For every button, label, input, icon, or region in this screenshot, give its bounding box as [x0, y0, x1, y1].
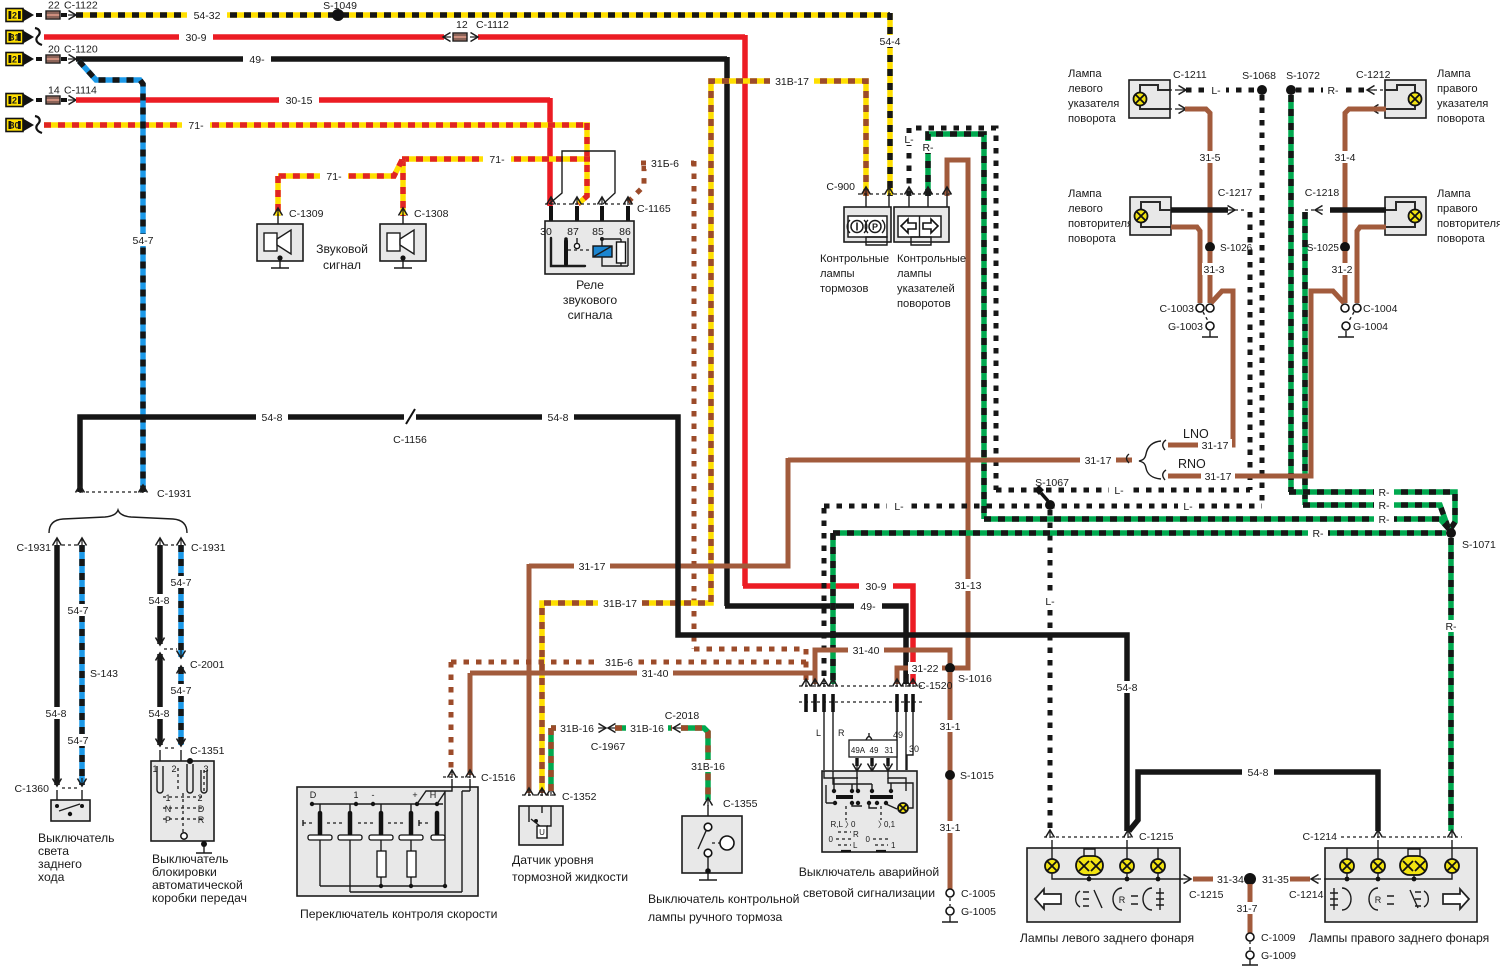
connector C-1360 — [53, 778, 62, 786]
ground G-1005 — [946, 907, 954, 915]
svg-text:блокировки: блокировки — [152, 865, 217, 879]
svg-text:Переключатель контроля скорост: Переключатель контроля скорости — [300, 907, 497, 921]
svg-text:31-3: 31-3 — [1203, 264, 1224, 276]
wire R- green horizontal from hazard — [833, 530, 1446, 536]
svg-text:G-1004: G-1004 — [1353, 321, 1388, 333]
svg-text:31-34: 31-34 — [1217, 874, 1244, 886]
relay internals: contact arm — [551, 238, 585, 266]
svg-text:L: L — [853, 841, 858, 850]
horn connector C-1308 — [399, 208, 408, 216]
connector C-1214 dashed line — [1341, 836, 1462, 838]
connector C-1351 — [156, 738, 165, 746]
wire 31B-6 down to hazard pin — [804, 662, 809, 684]
svg-text:14: 14 — [48, 85, 60, 97]
svg-text:тормозов: тормозов — [820, 283, 868, 295]
svg-text:LNO: LNO — [1183, 427, 1209, 441]
left turn indicator icon — [901, 219, 916, 233]
svg-text:54-7: 54-7 — [67, 605, 88, 617]
svg-text:85: 85 — [592, 226, 604, 238]
reverse light switch — [57, 790, 82, 800]
svg-text:G-1005: G-1005 — [961, 906, 996, 918]
splice S-1071 — [1446, 528, 1456, 538]
instrument cluster: brake warning lamps box — [844, 207, 891, 242]
svg-text:сигнала: сигнала — [568, 308, 613, 322]
svg-text:54-7: 54-7 — [67, 735, 88, 747]
speed control contact bars — [318, 813, 323, 834]
svg-text:31B-16: 31B-16 — [630, 723, 664, 735]
svg-text:C-1215: C-1215 — [1189, 889, 1224, 901]
svg-text:C-1212: C-1212 — [1356, 69, 1391, 81]
svg-text:Звуковой: Звуковой — [316, 242, 368, 256]
wire 30-9 horizontal to hazard switch — [743, 586, 913, 684]
svg-text:54-8: 54-8 — [148, 708, 169, 720]
hazard flasher unit 49A 49 31 — [849, 740, 897, 757]
svg-text:поворота: поворота — [1437, 113, 1486, 125]
svg-text:1: 1 — [891, 841, 896, 850]
connector C-1516 — [443, 776, 476, 778]
wire 31-1 to ground — [948, 672, 953, 889]
hazard switch position legend — [846, 806, 881, 820]
svg-text:30: 30 — [540, 226, 552, 238]
splice S-1026 — [1205, 242, 1215, 252]
svg-text:C-1218: C-1218 — [1305, 187, 1340, 199]
power feed tag 2 y=15 — [6, 9, 23, 22]
wire brown from right repeater to C-1004 — [1357, 227, 1386, 303]
svg-text:54-7: 54-7 — [132, 235, 153, 247]
wire 49- black — [76, 56, 727, 62]
wire 31-35 — [1290, 877, 1310, 882]
splice S-1025 — [1340, 242, 1350, 252]
svg-text:2: 2 — [197, 793, 202, 803]
svg-text:D: D — [198, 804, 205, 814]
svg-text:правого: правого — [1437, 203, 1478, 215]
svg-text:31-22: 31-22 — [912, 663, 939, 675]
power feed tag 31 y=37 — [6, 31, 23, 44]
svg-text:31-13: 31-13 — [955, 580, 982, 592]
svg-text:Контрольные: Контрольные — [897, 253, 966, 265]
instrument cluster: turn indicator lamps box — [894, 207, 949, 242]
svg-text:Лампы правого заднего фонаря: Лампы правого заднего фонаря — [1309, 931, 1489, 945]
svg-text:P: P — [872, 222, 878, 232]
hazard warning switch box — [822, 771, 917, 852]
svg-text:S-1072: S-1072 — [1286, 70, 1320, 82]
horn 1 (sound signal) — [257, 224, 303, 261]
right rear lamp box — [1325, 848, 1477, 922]
svg-text:54-7: 54-7 — [170, 685, 191, 697]
wire R- green/black from C-900 — [928, 134, 984, 519]
svg-text:+: + — [412, 790, 417, 800]
svg-text:R-: R- — [1378, 487, 1390, 499]
splice S-1015 — [945, 770, 955, 780]
lamp C-1218 right repeater — [1385, 197, 1426, 235]
wire L- to left tail lamp — [1048, 510, 1053, 831]
svg-text:86: 86 — [619, 226, 631, 238]
wire R- green vertical from S-1072 — [1288, 95, 1294, 492]
svg-text:C-1308: C-1308 — [414, 208, 449, 220]
svg-text:31-5: 31-5 — [1199, 152, 1220, 164]
splice pigtail diamond to S-1067 — [1034, 485, 1044, 495]
svg-text:D: D — [310, 790, 317, 800]
svg-text:C-1122: C-1122 — [64, 0, 98, 12]
wire 71- yellow/red from feed — [44, 122, 590, 128]
connector C-1215 dashed line — [1044, 836, 1133, 838]
svg-text:коробки передач: коробки передач — [152, 891, 247, 905]
svg-text:54-8: 54-8 — [45, 708, 66, 720]
svg-text:31-17: 31-17 — [579, 561, 606, 573]
left tail lamp icons — [1035, 889, 1061, 909]
svg-text:20: 20 — [48, 44, 60, 56]
wire L- lower horizontal — [824, 504, 1262, 509]
svg-text:C-900: C-900 — [826, 181, 855, 193]
speed control contact platforms — [308, 835, 332, 840]
svg-text:31-40: 31-40 — [642, 668, 669, 680]
park brake switch box — [707, 805, 709, 822]
svg-text:G-1009: G-1009 — [1261, 950, 1296, 962]
brown dashed wire 31B-6 from relay pin 86 — [628, 166, 644, 202]
wire R- dashed to C-1212 — [1296, 88, 1368, 93]
svg-text:C-1211: C-1211 — [1173, 69, 1207, 81]
pigtail squiggle — [35, 28, 42, 45]
ground below horn 1 — [271, 260, 289, 268]
svg-text:левого: левого — [1068, 203, 1103, 215]
svg-text:C-1352: C-1352 — [562, 791, 597, 803]
svg-text:сигнал: сигнал — [323, 258, 361, 272]
svg-text:2: 2 — [12, 11, 17, 21]
wire 31-34 — [1183, 875, 1191, 884]
fuse 20 / connector C-1120 — [36, 57, 45, 61]
svg-text:54-7: 54-7 — [170, 577, 191, 589]
wire R- green from C-1218 elbow — [1303, 505, 1449, 530]
svg-text:L-: L- — [1045, 596, 1055, 608]
horn relay housing outline — [549, 151, 615, 204]
svg-text:Реле: Реле — [576, 278, 604, 292]
svg-text:указателя: указателя — [1437, 98, 1488, 110]
svg-text:C-1165: C-1165 — [637, 203, 671, 215]
svg-text:31-7: 31-7 — [1236, 903, 1257, 915]
connector C-1355 — [704, 798, 713, 806]
svg-text:R: R — [1375, 895, 1382, 905]
svg-text:54-8: 54-8 — [1247, 767, 1268, 779]
svg-text:31B-16: 31B-16 — [691, 761, 725, 773]
wire 54-8 black main — [80, 417, 404, 492]
svg-text:0,1: 0,1 — [884, 820, 896, 829]
wire 71- horn feed lower — [400, 159, 406, 216]
svg-text:30: 30 — [9, 121, 19, 131]
lamp C-1212 right turn signal — [1385, 80, 1426, 118]
svg-text:заднего: заднего — [38, 857, 82, 871]
svg-text:Лампа: Лампа — [1068, 188, 1102, 200]
svg-text:L: L — [816, 728, 821, 738]
wire 54-7 blue/black from C-1120 down — [79, 61, 143, 492]
svg-text:12: 12 — [456, 19, 468, 31]
svg-text:C-1215: C-1215 — [1139, 831, 1174, 843]
svg-text:30: 30 — [909, 744, 919, 754]
wire 49- vertical and to hazard switch — [724, 57, 730, 606]
connector C-1931 right pair — [156, 538, 165, 546]
svg-text:R: R — [198, 815, 205, 825]
right turn indicator icon — [923, 219, 938, 233]
svg-text:R: R — [838, 728, 845, 738]
svg-text:R-: R- — [1445, 621, 1457, 633]
brake warning icon (!) — [851, 221, 863, 233]
wire 31-5 brown from left turn lamp — [1185, 109, 1210, 303]
svg-text:54-8: 54-8 — [261, 412, 282, 424]
speed control switch box — [297, 787, 478, 896]
svg-text:правого: правого — [1437, 83, 1478, 95]
svg-text:R-: R- — [1378, 500, 1390, 512]
svg-text:лампы: лампы — [820, 268, 855, 280]
svg-text:31-2: 31-2 — [1331, 264, 1352, 276]
ground G-1009 — [1246, 951, 1254, 959]
svg-text:C-2001: C-2001 — [190, 659, 225, 671]
right tail lamp icons — [1330, 888, 1351, 910]
svg-text:C-1516: C-1516 — [481, 772, 516, 784]
wire 54-8 left branch (reverse switch) — [54, 545, 60, 785]
wire 54-8 right branch (AT lock switch) — [157, 545, 163, 644]
svg-text:30-15: 30-15 — [286, 95, 313, 107]
right rear lamp bus — [1325, 873, 1452, 879]
svg-text:S-1068: S-1068 — [1242, 70, 1276, 82]
svg-text:R-: R- — [922, 142, 934, 154]
wire from right repeater to C-1218 — [1330, 207, 1386, 213]
harness brace below C-1931 — [49, 510, 187, 533]
splice S-1068 — [1257, 85, 1267, 95]
wire 54-7 right branch (AT lock switch) — [178, 545, 184, 657]
park brake icon (P) — [869, 221, 881, 233]
svg-text:S-1049: S-1049 — [323, 0, 357, 12]
wire 54-4 vertical to C-900 — [887, 13, 893, 196]
svg-text:C-1351: C-1351 — [190, 745, 225, 757]
svg-text:S-1015: S-1015 — [960, 770, 994, 782]
wire 31-40 up from hazard pin to S-1016 — [815, 650, 950, 684]
svg-text:31B-17: 31B-17 — [603, 598, 637, 610]
splice S-1072 — [1286, 85, 1296, 95]
svg-text:C-1004: C-1004 — [1363, 303, 1398, 315]
left rear lamp bus — [1052, 873, 1183, 879]
hazard switch pin wires — [804, 694, 808, 712]
svg-text:R: R — [853, 830, 859, 839]
svg-text:30-9: 30-9 — [185, 32, 206, 44]
svg-text:Выключатель: Выключатель — [38, 831, 114, 845]
svg-text:S-1067: S-1067 — [1035, 477, 1069, 489]
left rear lamp box — [1027, 848, 1180, 922]
svg-text:света: света — [38, 844, 69, 858]
svg-text:0: 0 — [829, 835, 834, 844]
svg-text:R-: R- — [1327, 85, 1339, 97]
svg-text:1: 1 — [165, 793, 170, 803]
svg-text:C-1967: C-1967 — [591, 741, 626, 753]
svg-text:31B-16: 31B-16 — [560, 723, 594, 735]
splice S-1067 — [1045, 500, 1055, 510]
svg-text:2: 2 — [171, 764, 176, 774]
svg-text:Датчик уровня: Датчик уровня — [512, 853, 594, 867]
wire 71- down to relay pin 87 — [578, 123, 587, 204]
svg-text:световой сигнализации: световой сигнализации — [803, 886, 935, 900]
svg-text:R-: R- — [1312, 528, 1324, 540]
wire 31B-16 green/brown — [548, 728, 554, 791]
svg-text:31Б-6: 31Б-6 — [651, 158, 679, 170]
wire L- to hazard switch — [822, 508, 827, 684]
horn 2 (sound signal) — [380, 224, 426, 261]
svg-text:лампы: лампы — [897, 268, 932, 280]
svg-text:54-8: 54-8 — [1116, 682, 1137, 694]
wire 31-22 from hazard to S-1016 — [897, 668, 946, 684]
connector C-900 dashed line — [858, 193, 954, 195]
svg-text:31-4: 31-4 — [1334, 152, 1355, 164]
svg-text:C-1217: C-1217 — [1218, 187, 1253, 199]
ground below park brake switch — [699, 873, 717, 880]
svg-text:C-1309: C-1309 — [289, 208, 324, 220]
svg-text:Лампа: Лампа — [1068, 68, 1102, 80]
inline connector C-1967 — [598, 724, 606, 733]
svg-text:Лампы левого заднего фонаря: Лампы левого заднего фонаря — [1020, 931, 1194, 945]
svg-text:C-1156: C-1156 — [393, 434, 427, 446]
wire 31-17 main horizontal — [788, 458, 1132, 463]
svg-text:71-: 71- — [326, 171, 342, 183]
svg-text:C-2018: C-2018 — [665, 710, 700, 722]
svg-text:71-: 71- — [188, 120, 204, 132]
svg-text:C-1003: C-1003 — [1160, 303, 1195, 315]
svg-text:L-: L- — [1114, 485, 1124, 497]
svg-text:22: 22 — [48, 0, 60, 12]
svg-text:Выключатель: Выключатель — [152, 852, 228, 866]
svg-text:2: 2 — [12, 96, 17, 106]
wire 31B-16 to C-1355 — [681, 728, 708, 800]
svg-text:49: 49 — [870, 746, 879, 755]
svg-text:Лампа: Лампа — [1437, 68, 1471, 80]
svg-text:C-1931: C-1931 — [191, 542, 226, 554]
svg-text:C-1120: C-1120 — [64, 44, 98, 56]
speed control internals rail — [311, 803, 443, 805]
svg-text:R: R — [1119, 895, 1126, 905]
fuse 22 / connector C-1122 — [36, 13, 45, 17]
ground G-1003 — [1206, 322, 1214, 330]
svg-text:Контрольные: Контрольные — [820, 253, 889, 265]
brace splitting 31-17 into LNO/RNO — [1127, 454, 1130, 463]
svg-text:C-1931: C-1931 — [157, 488, 192, 500]
wire 31B-6 dashed horizontal — [694, 647, 806, 652]
wire 31-40 down to C-1516 — [468, 673, 473, 775]
svg-text:повторителя: повторителя — [1068, 218, 1133, 230]
svg-text:поворота: поворота — [1068, 233, 1117, 245]
svg-text:1: 1 — [353, 790, 358, 800]
connector C-1009 — [1246, 933, 1254, 941]
wire 31-40 brown horizontal lower — [470, 671, 815, 676]
svg-text:указателя: указателя — [1068, 98, 1119, 110]
horn connector C-1309 — [274, 208, 283, 216]
inline connector C-1156 — [406, 409, 415, 424]
fuse 14 / connector C-1114 — [36, 98, 45, 102]
svg-text:31B-17: 31B-17 — [775, 76, 809, 88]
svg-text:31: 31 — [885, 746, 894, 755]
svg-text:31-35: 31-35 — [1262, 874, 1289, 886]
connector C-1931 upper — [80, 491, 143, 493]
wire R- green to right tail lamp — [1448, 538, 1454, 831]
wire 31-4 brown from right turn lamp — [1345, 109, 1386, 303]
svg-text:2: 2 — [12, 55, 17, 65]
wire 31-13 brown from C-900 — [947, 160, 968, 668]
svg-text:31Б-6: 31Б-6 — [605, 657, 633, 669]
AT switch gear ladder — [163, 793, 203, 833]
svg-text:0: 0 — [866, 835, 871, 844]
svg-text:G-1003: G-1003 — [1168, 321, 1203, 333]
splice S-1016 — [945, 663, 955, 673]
svg-text:C-1114: C-1114 — [64, 85, 97, 97]
right rear lamps — [1340, 859, 1354, 873]
svg-text:L-: L- — [904, 134, 914, 146]
connector C-1352 — [522, 794, 558, 796]
power feed tag 2 y=100 — [6, 94, 23, 107]
svg-text:71-: 71- — [489, 154, 505, 166]
svg-text:L-: L- — [894, 501, 904, 513]
svg-text:повторителя: повторителя — [1437, 218, 1500, 230]
wire 31B-17 yellow/brown — [542, 81, 866, 793]
connector C-1005 — [946, 889, 954, 897]
svg-text:лампы ручного тормоза: лампы ручного тормоза — [648, 910, 783, 924]
svg-text:поворота: поворота — [1437, 233, 1486, 245]
svg-text:P: P — [165, 815, 171, 825]
svg-text:30-9: 30-9 — [865, 581, 886, 593]
svg-text:C-1214: C-1214 — [1289, 889, 1324, 901]
svg-text:левого: левого — [1068, 83, 1103, 95]
svg-text:U: U — [539, 828, 545, 837]
wire L- upper horizontal — [996, 488, 1250, 493]
svg-text:0: 0 — [851, 820, 856, 829]
ground G-1004 — [1342, 322, 1350, 330]
lamp C-1211 left turn signal — [1129, 80, 1170, 118]
wire 54-32 yellow/black top — [76, 12, 890, 18]
wire brown from left repeater to C-1003 — [1171, 227, 1200, 303]
svg-text:S-1071: S-1071 — [1462, 539, 1496, 551]
AT lock switch box — [160, 750, 181, 765]
svg-text:автоматической: автоматической — [152, 878, 243, 892]
wire 54-7 left branch (reverse switch) — [79, 545, 85, 785]
svg-text:49A: 49A — [851, 746, 866, 755]
pigtail squiggle — [35, 116, 42, 133]
svg-text:31-17: 31-17 — [1202, 440, 1229, 452]
ground below AT switch — [196, 846, 212, 853]
svg-text:L-: L- — [1183, 501, 1193, 513]
power feed tag 30 y=125 — [6, 119, 23, 132]
svg-text:S-143: S-143 — [90, 668, 118, 680]
wire 31-17 down-left to speed control — [529, 458, 788, 566]
svg-text:-: - — [372, 790, 375, 800]
svg-text:31-40: 31-40 — [853, 645, 880, 657]
svg-text:поворота: поворота — [1068, 113, 1117, 125]
svg-text:49: 49 — [893, 730, 903, 740]
svg-text:L-: L- — [1211, 85, 1221, 97]
svg-text:C-1931: C-1931 — [17, 542, 52, 554]
svg-text:Выключатель аварийной: Выключатель аварийной — [799, 865, 939, 879]
connector C-1520 dashed lines — [799, 686, 922, 702]
wire R- green horizontal from cluster — [984, 519, 1449, 529]
svg-text:87: 87 — [567, 226, 579, 238]
wire 30-15 red to horn relay — [76, 97, 550, 103]
speed control resistors and lower wiring — [320, 840, 411, 892]
svg-text:C-1112: C-1112 — [476, 19, 509, 31]
svg-text:тормозной жидкости: тормозной жидкости — [512, 870, 628, 884]
wire 31B-6 down to C-1516 — [449, 662, 454, 775]
connector C-1003 — [1196, 304, 1204, 312]
svg-text:C-1005: C-1005 — [961, 888, 996, 900]
connector C-1931 left pair — [53, 538, 62, 546]
hazard switch internals — [824, 771, 906, 791]
svg-text:указателей: указателей — [897, 283, 955, 295]
wire 31-2 elbow to RNO — [1343, 251, 1348, 302]
wire 54-8 branch to right tail lamp — [1129, 772, 1378, 831]
svg-text:хода: хода — [38, 870, 65, 884]
relay resistor — [617, 242, 626, 263]
